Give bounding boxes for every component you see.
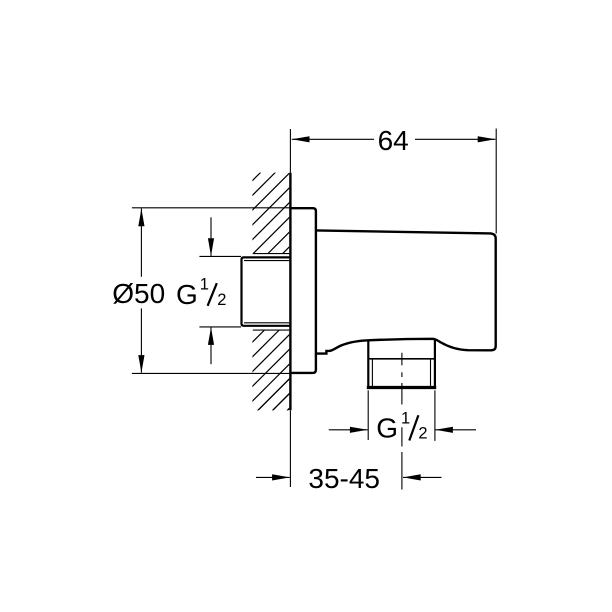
dim G1/2 outlet: arrow lines [329,429,368,431]
outlet bottom thick edge [367,386,436,389]
dim 64: dimension line + arrows [292,138,374,140]
svg-text:G: G [376,413,398,444]
wall hatching [153,165,415,441]
dim 35-45: lines + arrows [256,476,290,478]
outlet thread inner left [371,359,373,386]
outlet thread inner right [430,359,432,386]
svg-text:Ø50: Ø50 [112,278,165,309]
dim 64: extension lines [289,129,291,173]
outlet shoulder line [368,358,435,360]
outlet right side [434,339,436,387]
nipple thread line top [244,260,289,262]
outlet left side [367,340,369,387]
wall hole bottom edge [253,329,289,331]
dim G1/2 inlet: arrow lines [210,217,212,256]
dim D50: extension lines [132,207,289,209]
svg-text:1: 1 [401,409,410,427]
dim D50: dimension line + arrows [140,209,142,277]
escutcheon [289,208,316,373]
dim G1/2 outlet: extension lines [367,390,369,440]
wall hole top edge [253,253,289,255]
svg-text:64: 64 [378,125,409,156]
dim G1/2 inlet: extension lines [199,255,241,257]
nipple thread line bottom [244,322,289,324]
svg-text:35-45: 35-45 [308,463,380,494]
svg-text:2: 2 [418,424,427,442]
svg-text:2: 2 [217,291,226,309]
body outline [316,230,496,353]
inlet nipple outline [242,257,290,325]
svg-text:G: G [176,279,198,310]
centerline of outlet (dashed) [401,353,403,490]
dim G1/2 outlet: text [376,409,427,443]
svg-text:1: 1 [200,276,209,294]
wall face line [289,173,291,410]
wall extension line below [289,410,291,487]
dim G1/2 inlet: text [176,276,226,310]
